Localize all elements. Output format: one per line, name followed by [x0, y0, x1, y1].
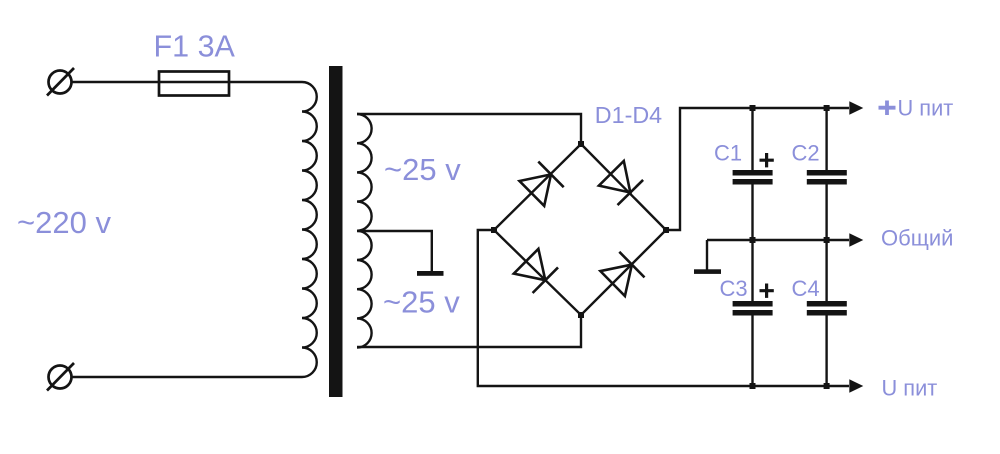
svg-text:U пит: U пит	[882, 376, 938, 401]
svg-text:~220 v: ~220 v	[17, 205, 111, 240]
svg-text:C4: C4	[792, 276, 820, 301]
svg-text:C2: C2	[792, 141, 820, 166]
svg-text:~25 v: ~25 v	[383, 285, 460, 320]
svg-text:U пит: U пит	[898, 96, 954, 121]
svg-text:F1 3A: F1 3A	[154, 30, 236, 64]
svg-text:D1-D4: D1-D4	[595, 102, 662, 128]
svg-text:C1: C1	[714, 141, 742, 166]
svg-text:~25 v: ~25 v	[384, 152, 461, 187]
svg-text:C3: C3	[720, 276, 748, 301]
svg-text:Общий: Общий	[881, 226, 953, 251]
